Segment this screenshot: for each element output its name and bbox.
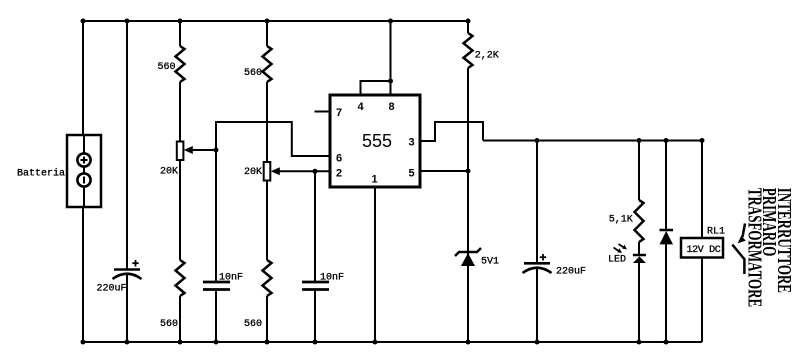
wire pin 3 output net step bbox=[420, 122, 483, 141]
wire relay column bbox=[701, 141, 703, 239]
node: output rail / diode bbox=[664, 138, 669, 143]
svg-text:6: 6 bbox=[336, 153, 342, 165]
wire 220uF right column bbox=[536, 141, 538, 264]
node: ground / pin1 bbox=[373, 340, 378, 345]
node: output rail / relay bbox=[700, 138, 705, 143]
svg-text:560: 560 bbox=[244, 319, 262, 330]
svg-text:5V1: 5V1 bbox=[481, 257, 499, 268]
wire 10nF #1 column bbox=[215, 150, 217, 282]
node: pot1 wiper junction bbox=[214, 148, 219, 153]
resistor 5,1K bbox=[635, 200, 644, 242]
svg-text:5,1K: 5,1K bbox=[609, 215, 633, 226]
resistor 2,2K bbox=[464, 33, 473, 68]
node: ground / 220uF right bbox=[535, 340, 540, 345]
zener diode 5V1 bbox=[455, 248, 481, 266]
svg-text:3: 3 bbox=[409, 137, 415, 149]
wire battery column bottom bbox=[82, 206, 84, 342]
wire 2,2K / zener column bbox=[467, 21, 469, 33]
svg-text:Batteria: Batteria bbox=[17, 168, 65, 180]
capacitor 220uF right (polarized) bbox=[523, 254, 552, 273]
svg-text:220uF: 220uF bbox=[556, 267, 586, 278]
relay contact switch symbol bbox=[732, 224, 746, 275]
svg-text:560: 560 bbox=[158, 62, 176, 73]
svg-text:560: 560 bbox=[244, 68, 262, 79]
wire resistor/pot column 2 (x=267) bbox=[266, 21, 268, 46]
node: ground / 10nF2 bbox=[313, 340, 318, 345]
battery B1 bbox=[67, 135, 101, 207]
node: ground / 560 col1 bbox=[178, 340, 183, 345]
wire 10nF #2 column bbox=[314, 171, 316, 282]
top supply rail wire bbox=[82, 20, 468, 22]
svg-text:560: 560 bbox=[160, 319, 178, 330]
capacitor 10nF #2 bbox=[302, 282, 329, 290]
node: top rail / 560 col2 bbox=[265, 19, 270, 24]
node: pot2 wiper junction bbox=[313, 169, 318, 174]
wire pin 7 stub bbox=[315, 111, 331, 113]
wire pin 5 stub bbox=[420, 170, 468, 172]
svg-text:7: 7 bbox=[336, 107, 342, 119]
wire output rail right bbox=[483, 140, 702, 142]
svg-text:2: 2 bbox=[336, 168, 342, 180]
wire 220uF left column bottom bbox=[126, 274, 128, 342]
op-amp/timer U1 555 box bbox=[330, 95, 420, 187]
capacitor 10nF #1 bbox=[203, 282, 230, 290]
node: ground / diode bbox=[664, 340, 669, 345]
potentiometer 20K #1 bbox=[177, 142, 216, 161]
svg-text:555: 555 bbox=[362, 131, 392, 151]
node: output rail / 220uF bbox=[535, 138, 540, 143]
svg-text:1: 1 bbox=[372, 174, 378, 186]
resistor 560 top-left bbox=[176, 46, 185, 82]
node: top rail / 560 col1 bbox=[178, 19, 183, 24]
svg-text:220uF: 220uF bbox=[97, 284, 127, 295]
node: pin5 / zener column bbox=[466, 169, 471, 174]
svg-text:10nF: 10nF bbox=[320, 273, 344, 284]
wire 220uF left column bbox=[126, 21, 128, 269]
bottom ground rail wire bbox=[83, 341, 702, 343]
node: top rail / battery bbox=[81, 19, 86, 24]
svg-text:12V DC: 12V DC bbox=[687, 245, 721, 256]
svg-text:2,2K: 2,2K bbox=[475, 51, 499, 62]
node: ground / 560 col2 bbox=[265, 340, 270, 345]
potentiometer 20K #2 bbox=[264, 162, 330, 181]
svg-text:RL1: RL1 bbox=[707, 227, 725, 238]
wire 5,1K / LED column bbox=[638, 141, 640, 201]
wire diode column bbox=[665, 141, 667, 231]
relay RL1 coil box bbox=[681, 238, 723, 258]
node: top rail / pin8 riser bbox=[388, 19, 393, 24]
svg-text:10nF: 10nF bbox=[219, 273, 243, 284]
svg-text:20K: 20K bbox=[160, 167, 178, 178]
svg-text:5: 5 bbox=[409, 168, 415, 180]
svg-text:8: 8 bbox=[389, 101, 395, 113]
diode D1 bbox=[660, 230, 674, 244]
svg-text:LED: LED bbox=[608, 255, 626, 266]
resistor 560 bottom-mid bbox=[263, 260, 272, 296]
wire pin 4/8 top loop bbox=[361, 81, 391, 95]
node: ground / 10nF1 bbox=[214, 340, 219, 345]
svg-text:20K: 20K bbox=[244, 167, 262, 178]
node: ground / 220uF bbox=[125, 340, 130, 345]
wire battery column top bbox=[82, 21, 84, 136]
LED D2 bbox=[614, 244, 646, 263]
capacitor 220uF left (polarized) bbox=[113, 260, 142, 279]
resistor 560 top-mid bbox=[263, 46, 272, 82]
node: output rail / 5,1K bbox=[637, 138, 642, 143]
node: pin8 loop junction bbox=[388, 79, 393, 84]
wire resistor/pot column 1 (x=180) bbox=[179, 21, 181, 46]
node: ground / zener bbox=[466, 340, 471, 345]
wire pin6 net: step from x=216 corner to pin 6 bbox=[216, 122, 330, 156]
node: top rail / 2,2K bbox=[466, 19, 471, 24]
wire pin 1 to ground rail bbox=[374, 187, 376, 342]
svg-text:TRASFORMATORE: TRASFORMATORE bbox=[744, 188, 766, 307]
svg-text:4: 4 bbox=[358, 101, 365, 113]
node: ground / battery bbox=[81, 340, 86, 345]
node: top rail / 220uF bbox=[125, 19, 130, 24]
resistor 560 bottom-left bbox=[176, 260, 185, 296]
wire supply to pin 8 bbox=[390, 21, 392, 81]
node: ground / LED bbox=[637, 340, 642, 345]
